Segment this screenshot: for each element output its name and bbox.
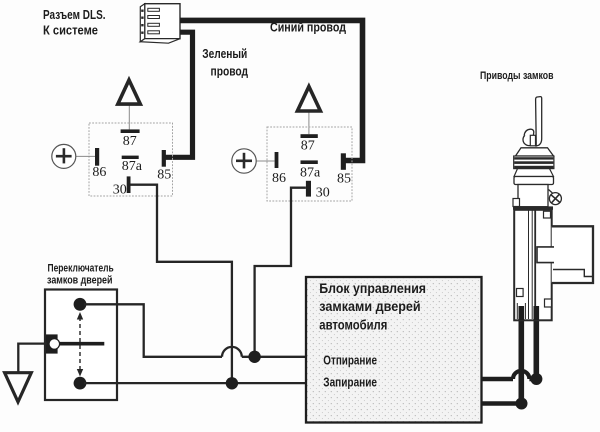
svg-text:87: 87: [301, 138, 315, 153]
svg-text:Синий провод: Синий провод: [270, 20, 346, 34]
svg-text:Переключатель: Переключатель: [48, 263, 114, 275]
svg-text:провод: провод: [211, 65, 249, 79]
relay U1 pin 86: [92, 148, 106, 180]
wire: control block output (upper, to right actuator wire) with hop: [482, 371, 537, 379]
svg-text:замков дверей: замков дверей: [47, 275, 113, 287]
svg-text:К системе: К системе: [43, 24, 98, 38]
wire: relay U2 pin 30 down to junction (Отпирание line): [255, 188, 306, 357]
actuator: collar band: [514, 177, 554, 185]
actuator: left tab on neck: [513, 199, 520, 207]
relay U2 pin 87: [301, 134, 318, 153]
junction dot (relay U2 wire joins Отпирание line): [248, 351, 260, 363]
label: Зеленый провод: [202, 47, 248, 79]
actuator: dark separator band: [513, 206, 553, 209]
wire: relay U1 pin 30 to lock-control junction (Запирание line): [130, 185, 232, 384]
wire: switch pivot to ground: [18, 344, 47, 372]
actuator: neck section: [518, 185, 554, 207]
wire: actuator right lead down: [533, 312, 539, 379]
control block (Блок управления замками дверей автомобиля): [306, 277, 482, 423]
relay U1 box: [89, 123, 173, 196]
ground symbol: [5, 373, 32, 402]
svg-text:Зеленый: Зеленый: [202, 47, 247, 61]
relay U1 pin 30: [113, 176, 131, 197]
svg-text:Запирание: Запирание: [323, 376, 377, 390]
junction dot (right lead meets upper output): [530, 373, 542, 385]
svg-text:86: 86: [92, 165, 106, 180]
svg-text:86: 86: [272, 171, 286, 186]
relay U1 pin 87: [121, 129, 140, 149]
wire: blue wire (Синий провод) from connector to relay U2 pin 85: [180, 20, 363, 160]
label: Разъем DLS. К системе: [43, 8, 106, 38]
plus terminal circle at relay U1 pin 86: [52, 144, 95, 168]
plus terminal circle at relay U2 pin 86: [232, 149, 275, 173]
triangle marker above relay U2: [297, 87, 320, 135]
relay U2 box: [267, 127, 352, 201]
actuator: cap trapezoid: [516, 148, 554, 156]
wire: green wire (Зеленый провод) from connector to relay U1 pin 85: [165, 32, 193, 157]
actuator: lock rod: [536, 97, 542, 146]
svg-text:85: 85: [337, 171, 351, 186]
label: Синий провод: [270, 20, 346, 34]
svg-text:Отпирание: Отпирание: [323, 353, 377, 367]
junction dot (relay U1 wire joins Запирание line): [226, 377, 238, 389]
svg-text:Приводы замков: Приводы замков: [480, 70, 554, 82]
label: Приводы замков: [480, 70, 554, 82]
svg-text:автомобиля: автомобиля: [319, 318, 387, 333]
relay U2 pin 86: [272, 152, 286, 186]
actuator: striped washer stack: [514, 156, 554, 169]
svg-text:30: 30: [113, 182, 127, 197]
switch S1 bottom contact: [74, 377, 87, 390]
svg-text:Блок управления: Блок управления: [319, 281, 426, 296]
switch S1 lever and pivot: [46, 334, 104, 353]
relay U1 pin 87a: [122, 156, 143, 175]
triangle marker above relay U1: [118, 80, 141, 129]
svg-text:85: 85: [157, 167, 171, 182]
switch S1 box: [45, 290, 117, 401]
switch S1 top contact: [74, 298, 87, 311]
connector J1 (Разъем DLS): [140, 4, 180, 44]
relay U2 pin 30: [306, 181, 330, 201]
svg-text:87a: 87a: [300, 165, 321, 180]
actuator: lower cone: [514, 169, 554, 177]
svg-text:87a: 87a: [122, 159, 143, 174]
svg-text:замками дверей: замками дверей: [319, 299, 420, 314]
wire: actuator left lead down: [518, 312, 524, 404]
actuator: mounting bracket plate: [537, 226, 593, 283]
wire: control block output (lower, to left actuator wire): [482, 401, 522, 406]
label: Переключатель замков дверей: [47, 263, 114, 287]
switch S1 dashed travel arrows: [77, 312, 83, 377]
svg-text:87: 87: [123, 134, 137, 149]
actuator: mounting screw: [549, 193, 561, 205]
wire: switch top contact to control block (Отпирание) with hop: [84, 304, 307, 357]
relay U2 pin 85: [337, 153, 351, 186]
svg-text:30: 30: [316, 185, 330, 200]
actuator: main body: [514, 210, 552, 320]
actuator: rod knob/hook: [523, 129, 536, 146]
svg-text:Разъем DLS.: Разъем DLS.: [43, 8, 106, 22]
junction dot (left lead meets lower output): [516, 398, 528, 410]
wire: switch bottom contact to control block (Запирание): [84, 382, 307, 384]
relay U1 pin 85: [157, 150, 171, 182]
relay U2 pin 87a: [300, 160, 321, 180]
